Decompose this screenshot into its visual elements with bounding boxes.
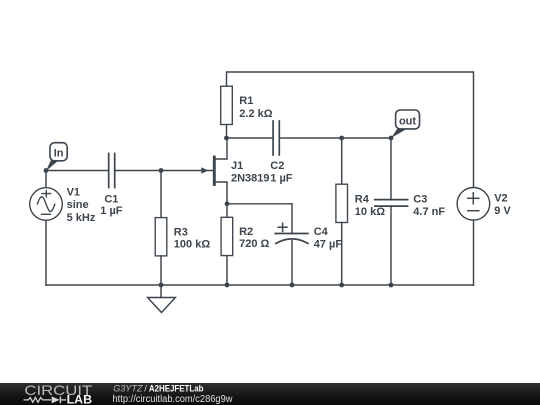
svg-text:sine: sine: [67, 199, 89, 211]
svg-text:C2: C2: [270, 160, 284, 172]
svg-text:C4: C4: [314, 226, 329, 238]
svg-text:G3YTZ: G3YTZ: [113, 383, 143, 394]
svg-text:C3: C3: [413, 194, 427, 206]
svg-text:http://circuitlab.com/c286g9w: http://circuitlab.com/c286g9w: [113, 394, 234, 405]
svg-text:/: /: [144, 383, 147, 394]
svg-text:R2: R2: [239, 226, 253, 238]
svg-text:47 µF: 47 µF: [314, 238, 343, 250]
svg-text:J1: J1: [231, 160, 243, 172]
svg-text:720 Ω: 720 Ω: [239, 238, 269, 250]
svg-text:R1: R1: [239, 95, 253, 107]
svg-text:LAB: LAB: [67, 395, 92, 405]
svg-text:R3: R3: [174, 226, 188, 238]
svg-text:R4: R4: [355, 194, 370, 206]
svg-text:4.7 nF: 4.7 nF: [413, 206, 445, 218]
svg-text:In: In: [54, 147, 64, 159]
svg-text:9 V: 9 V: [494, 205, 511, 217]
svg-text:5 kHz: 5 kHz: [67, 212, 96, 224]
svg-text:C1: C1: [104, 193, 118, 205]
svg-text:V2: V2: [494, 193, 507, 205]
svg-text:out: out: [399, 115, 416, 127]
svg-text:1 µF: 1 µF: [100, 205, 123, 217]
svg-text:2N3819: 2N3819: [231, 173, 270, 185]
svg-text:10 kΩ: 10 kΩ: [355, 206, 385, 218]
svg-text:A2HEJFETLab: A2HEJFETLab: [149, 383, 204, 394]
svg-text:V1: V1: [67, 186, 80, 198]
svg-text:100 kΩ: 100 kΩ: [174, 239, 211, 251]
svg-text:2.2 kΩ: 2.2 kΩ: [239, 108, 272, 120]
svg-text:1 µF: 1 µF: [270, 173, 293, 185]
